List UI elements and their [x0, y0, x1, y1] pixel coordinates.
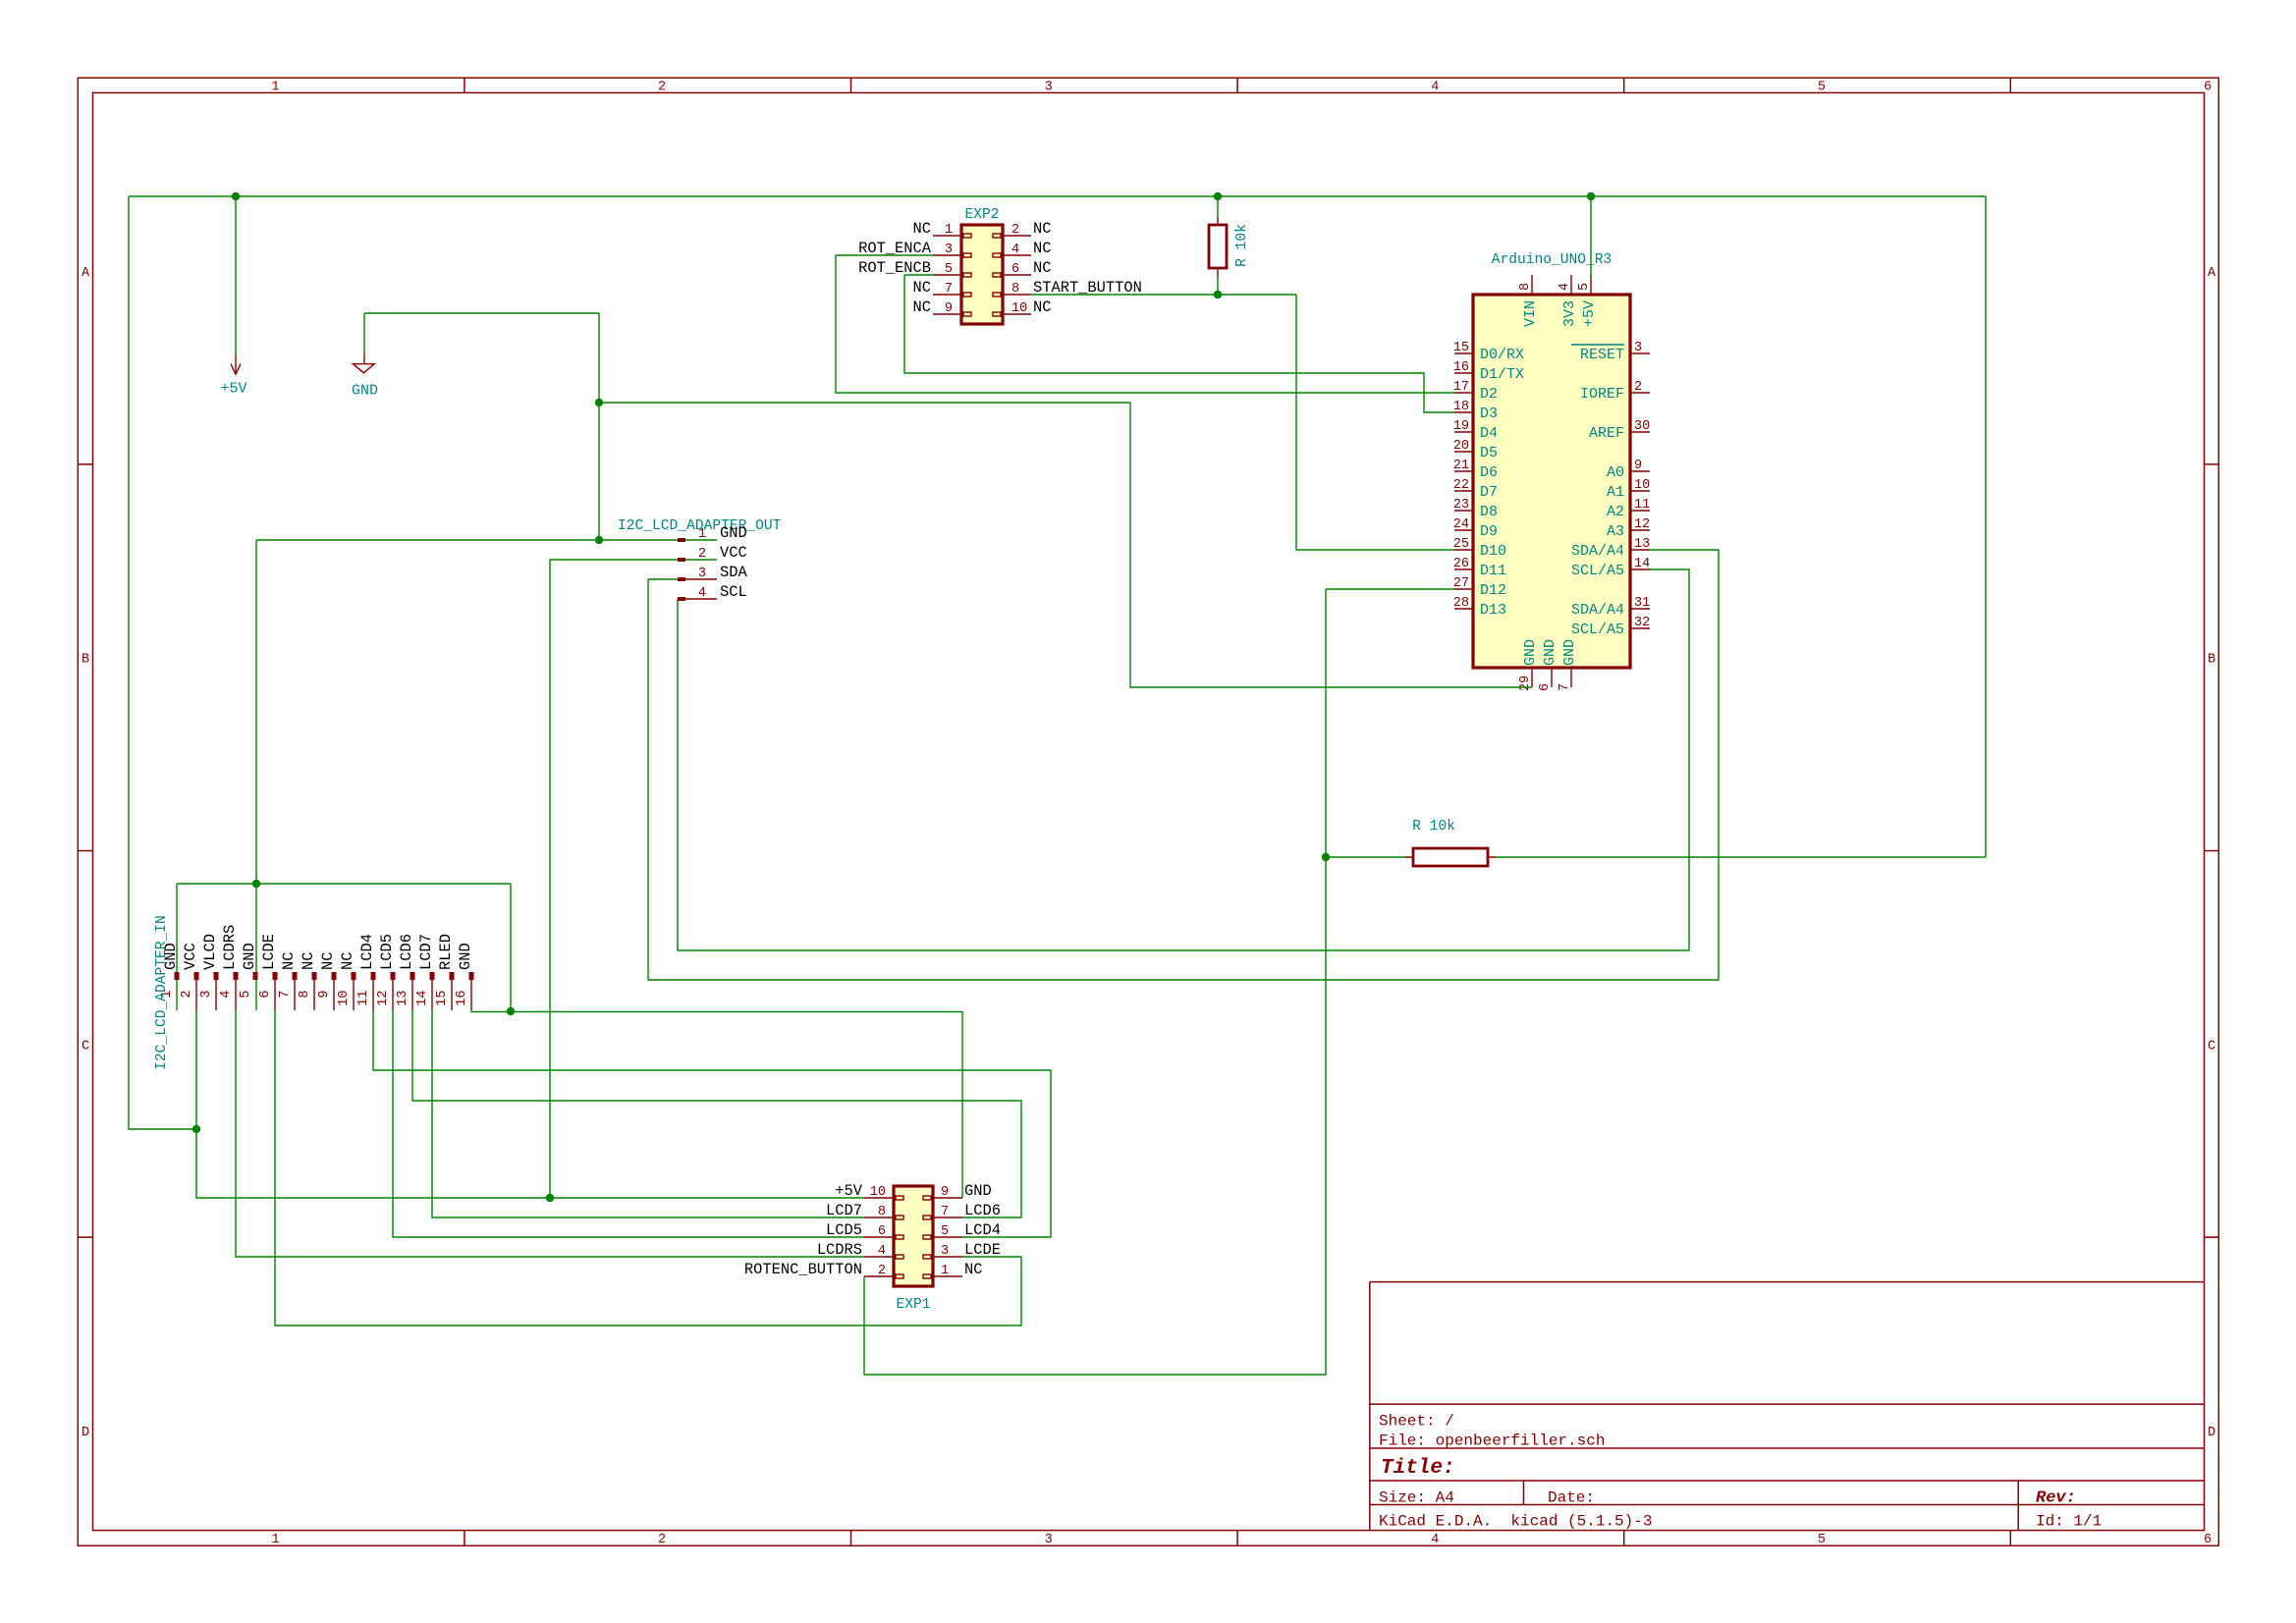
junction +5V	[1214, 192, 1222, 200]
svg-text:4: 4	[1431, 1533, 1439, 1547]
svg-text:2: 2	[658, 81, 666, 95]
svg-text:2: 2	[180, 991, 194, 999]
svg-text:20: 20	[1453, 439, 1469, 454]
svg-text:SCL: SCL	[720, 583, 747, 601]
svg-text:Sheet: /: Sheet: /	[1379, 1413, 1454, 1431]
svg-text:NC: NC	[300, 952, 317, 970]
svg-text:A: A	[82, 266, 90, 281]
pin pads I2C_LCD_ADAPTER_OUT	[678, 538, 685, 601]
svg-text:22: 22	[1453, 478, 1469, 493]
svg-text:D6: D6	[1480, 464, 1498, 481]
svg-text:SDA/A4: SDA/A4	[1571, 602, 1624, 619]
svg-text:A2: A2	[1607, 504, 1624, 520]
svg-text:D: D	[2208, 1426, 2215, 1440]
svg-text:VCC: VCC	[182, 943, 199, 970]
wire ROT_ENCA from EXP2 pin3	[836, 254, 933, 256]
wire +5V to EXP1 pin10	[196, 1010, 864, 1198]
svg-text:4: 4	[1558, 283, 1572, 291]
svg-text:LCDRS: LCDRS	[221, 925, 239, 970]
svg-text:7: 7	[278, 991, 293, 999]
resistor R1 10k (vertical)	[1209, 217, 1227, 277]
svg-text:5: 5	[1818, 81, 1826, 95]
svg-text:D8: D8	[1480, 504, 1498, 520]
svg-text:7: 7	[941, 1205, 949, 1219]
wire R2 left	[1326, 856, 1405, 858]
wire START_BUTTON to Arduino D10	[1296, 295, 1454, 550]
wire VCC to I2C_LCD_ADAPTER_OUT pin2	[550, 559, 717, 561]
svg-text:VLCD: VLCD	[201, 934, 219, 970]
svg-text:1: 1	[271, 1533, 279, 1547]
svg-text:4: 4	[698, 586, 706, 601]
resistor R2 10k (horizontal)	[1405, 848, 1496, 866]
svg-text:D7: D7	[1480, 484, 1498, 501]
svg-text:SCL/A5: SCL/A5	[1571, 563, 1624, 579]
svg-text:16: 16	[1453, 360, 1469, 375]
svg-text:RESET: RESET	[1580, 347, 1624, 363]
wire +5V right riser	[1985, 196, 1987, 857]
svg-text:File: openbeerfiller.sch: File: openbeerfiller.sch	[1379, 1433, 1605, 1450]
svg-text:12: 12	[376, 991, 391, 1006]
wire GND to I2C_LCD_ADAPTER_OUT pin1	[256, 539, 717, 541]
svg-text:5: 5	[941, 1224, 949, 1239]
wire ROTENC_BUTTON from Arduino D12	[1326, 588, 1454, 590]
svg-text:EXP2: EXP2	[964, 207, 999, 223]
svg-text:GND: GND	[1522, 639, 1539, 666]
svg-text:6: 6	[2204, 1533, 2212, 1547]
svg-text:1: 1	[945, 223, 953, 238]
wire GND to I2C_LCD_ADAPTER_IN pin1	[176, 884, 178, 1010]
svg-text:ROT_ENCB: ROT_ENCB	[858, 259, 931, 277]
svg-text:18: 18	[1453, 400, 1469, 414]
svg-text:NC: NC	[913, 279, 931, 297]
svg-text:GND: GND	[352, 383, 378, 400]
junction +5V	[546, 1194, 554, 1202]
svg-text:3: 3	[941, 1244, 949, 1259]
svg-text:+5V: +5V	[220, 381, 246, 398]
Arduino body	[1473, 295, 1630, 668]
svg-text:R 10k: R 10k	[1412, 819, 1455, 835]
wire SCL to Arduino SCL/A5	[678, 569, 1689, 950]
svg-text:12: 12	[1634, 517, 1650, 532]
svg-text:31: 31	[1634, 596, 1650, 611]
svg-text:Rev:: Rev:	[2036, 1489, 2076, 1508]
svg-text:3V3: 3V3	[1561, 300, 1578, 327]
svg-text:19: 19	[1453, 419, 1469, 434]
svg-text:25: 25	[1453, 537, 1469, 552]
wire START_BUTTON from EXP2 pin8	[1031, 294, 1296, 296]
wire LCD5 to EXP1 pin6	[393, 1010, 864, 1237]
svg-text:13: 13	[1634, 537, 1650, 552]
svg-text:LCD6: LCD6	[964, 1202, 1001, 1219]
wire ROT_ENCA to Arduino D2	[836, 255, 1454, 393]
svg-text:NC: NC	[1033, 240, 1051, 257]
svg-text:27: 27	[1453, 576, 1469, 591]
wire +5V VCC riser	[549, 560, 551, 1198]
svg-text:6: 6	[2204, 81, 2212, 95]
svg-text:28: 28	[1453, 596, 1469, 611]
svg-text:SCL/A5: SCL/A5	[1571, 622, 1624, 638]
svg-text:Date:: Date:	[1548, 1489, 1595, 1507]
svg-text:D2: D2	[1480, 386, 1498, 403]
svg-text:GND: GND	[964, 1182, 992, 1200]
wire +5V left riser	[129, 196, 196, 1129]
svg-text:ROTENC_BUTTON: ROTENC_BUTTON	[744, 1261, 862, 1278]
junction +5V	[1587, 192, 1595, 200]
svg-text:LCD4: LCD4	[964, 1221, 1001, 1239]
svg-text:5: 5	[945, 262, 953, 277]
svg-text:LCD4: LCD4	[358, 934, 376, 970]
connector I2C_LCD_ADAPTER_IN	[154, 915, 471, 1070]
svg-text:B: B	[2208, 653, 2215, 668]
connector I2C_LCD_ADAPTER_OUT	[618, 518, 782, 601]
svg-text:D3: D3	[1480, 406, 1498, 422]
svg-text:23: 23	[1453, 498, 1469, 513]
svg-text:2: 2	[1011, 223, 1019, 238]
svg-text:GND: GND	[1542, 639, 1558, 666]
svg-text:GND: GND	[1561, 639, 1578, 666]
wire LCD4 to EXP1 pin5	[373, 1010, 1051, 1237]
wire GND from I2C_LCD_ADAPTER_IN pin16	[471, 1010, 962, 1012]
svg-text:10: 10	[870, 1185, 886, 1200]
svg-text:A1: A1	[1607, 484, 1624, 501]
wire +5V symbol drop	[235, 196, 237, 354]
svg-text:8: 8	[1518, 283, 1533, 291]
svg-text:32: 32	[1634, 616, 1650, 630]
junction +5V	[192, 1125, 200, 1133]
svg-text:+5V: +5V	[1581, 300, 1598, 327]
pin pads I2C_LCD_ADAPTER_IN	[175, 972, 474, 980]
junction GND	[595, 399, 603, 406]
svg-text:14: 14	[1634, 557, 1650, 571]
svg-text:AREF: AREF	[1589, 425, 1624, 442]
EXP2 body	[961, 225, 1003, 324]
svg-text:8: 8	[878, 1205, 886, 1219]
wire LCDRS to EXP1 pin4	[236, 1010, 864, 1257]
svg-text:17: 17	[1453, 380, 1469, 395]
svg-text:9: 9	[317, 991, 332, 999]
wire +5V to Arduino pin5	[1590, 196, 1592, 278]
EXP2 pins	[933, 236, 1031, 314]
connector EXP1	[864, 1185, 962, 1313]
svg-text:NC: NC	[1033, 298, 1051, 316]
svg-text:D10: D10	[1480, 543, 1506, 560]
svg-text:NC: NC	[913, 220, 931, 238]
wire LCD7 to EXP1 pin8	[432, 1010, 864, 1217]
svg-text:D0/RX: D0/RX	[1480, 347, 1524, 363]
svg-text:D5: D5	[1480, 445, 1498, 461]
svg-text:C: C	[2208, 1039, 2215, 1054]
junction GND	[252, 880, 260, 888]
svg-text:29: 29	[1518, 676, 1533, 691]
svg-text:10: 10	[1634, 478, 1650, 493]
svg-text:3: 3	[698, 567, 706, 581]
svg-text:+5V: +5V	[835, 1182, 862, 1200]
svg-text:6: 6	[258, 991, 273, 999]
svg-text:9: 9	[941, 1185, 949, 1200]
svg-text:4: 4	[219, 991, 234, 999]
svg-text:START_BUTTON: START_BUTTON	[1033, 279, 1142, 297]
svg-text:EXP1: EXP1	[896, 1297, 930, 1313]
svg-text:IOREF: IOREF	[1580, 386, 1624, 403]
svg-text:D12: D12	[1480, 582, 1506, 599]
svg-text:VIN: VIN	[1522, 300, 1539, 327]
svg-text:NC: NC	[964, 1261, 982, 1278]
wire ROTENC_BUTTON to EXP1 pin2	[864, 589, 1326, 1375]
svg-text:7: 7	[1558, 683, 1572, 691]
svg-text:Title:: Title:	[1381, 1457, 1455, 1480]
svg-text:10: 10	[1011, 301, 1027, 316]
svg-text:LCD6: LCD6	[398, 934, 415, 970]
junction GND	[595, 536, 603, 544]
svg-text:15: 15	[1453, 341, 1469, 355]
svg-text:3: 3	[1045, 81, 1053, 95]
svg-text:15: 15	[435, 991, 450, 1006]
svg-text:D11: D11	[1480, 563, 1506, 579]
svg-text:4: 4	[1431, 81, 1439, 95]
svg-text:C: C	[82, 1039, 89, 1054]
wire GND riser	[364, 313, 599, 540]
svg-text:21: 21	[1453, 459, 1469, 473]
svg-text:6: 6	[878, 1224, 886, 1239]
svg-text:9: 9	[945, 301, 953, 316]
title block	[1370, 1282, 2205, 1531]
svg-text:6: 6	[1538, 683, 1553, 691]
svg-text:3: 3	[1634, 341, 1642, 355]
svg-text:Size: A4: Size: A4	[1379, 1489, 1454, 1507]
junction ROTENC_BUTTON	[1322, 853, 1330, 861]
svg-text:4: 4	[1011, 243, 1019, 257]
svg-text:13: 13	[396, 991, 410, 1006]
svg-text:2: 2	[1634, 380, 1642, 395]
svg-text:1: 1	[941, 1264, 949, 1278]
junction GND	[507, 1007, 515, 1015]
junction START_BUTTON	[1214, 291, 1222, 298]
wire +5V rail	[129, 195, 1986, 197]
wire SDA from I2C_LCD_ADAPTER_OUT pin3	[648, 578, 678, 580]
svg-text:2: 2	[878, 1264, 886, 1278]
svg-text:A: A	[2208, 266, 2216, 281]
svg-text:D13: D13	[1480, 602, 1506, 619]
wire R1 bottom	[1217, 277, 1219, 295]
svg-text:30: 30	[1634, 419, 1650, 434]
wire ROT_ENCB from EXP2 pin5	[904, 274, 933, 276]
svg-text:D1/TX: D1/TX	[1480, 366, 1524, 383]
svg-text:Id: 1/1: Id: 1/1	[2036, 1513, 2102, 1531]
wire SDA to Arduino SDA/A4	[648, 550, 1719, 980]
svg-text:3: 3	[199, 991, 214, 999]
svg-text:NC: NC	[913, 298, 931, 316]
power symbol GND	[352, 354, 378, 400]
svg-text:R 10k: R 10k	[1234, 224, 1250, 267]
svg-text:26: 26	[1453, 557, 1469, 571]
svg-text:LCD5: LCD5	[826, 1221, 862, 1239]
svg-text:2: 2	[658, 1533, 666, 1547]
svg-text:16: 16	[455, 991, 469, 1006]
svg-text:GND: GND	[241, 943, 258, 970]
svg-text:ROT_ENCA: ROT_ENCA	[858, 240, 932, 257]
wire LCDE to EXP1 pin3	[275, 1010, 1021, 1325]
svg-text:KiCad E.D.A. kicad (5.1.5)-3: KiCad E.D.A. kicad (5.1.5)-3	[1379, 1513, 1652, 1531]
wire +5V to R1	[1217, 196, 1219, 217]
svg-text:NC: NC	[1033, 259, 1051, 277]
svg-text:I2C_LCD_ADAPTER_IN: I2C_LCD_ADAPTER_IN	[154, 915, 170, 1070]
svg-text:LCDE: LCDE	[964, 1241, 1001, 1259]
svg-text:SDA/A4: SDA/A4	[1571, 543, 1624, 560]
svg-text:8: 8	[1011, 282, 1019, 297]
wire GND to EXP1 pin9	[961, 1012, 963, 1199]
svg-text:5: 5	[1818, 1533, 1826, 1547]
svg-text:A0: A0	[1607, 464, 1624, 481]
svg-text:LCD7: LCD7	[826, 1202, 862, 1219]
connector EXP2	[933, 207, 1031, 324]
svg-text:4: 4	[878, 1244, 886, 1259]
svg-text:D9: D9	[1480, 523, 1498, 540]
svg-text:1: 1	[271, 81, 279, 95]
svg-text:7: 7	[945, 282, 953, 297]
svg-text:11: 11	[356, 991, 371, 1006]
power symbol +5V	[220, 354, 246, 398]
svg-text:NC: NC	[319, 952, 337, 970]
wire GND to Arduino pin29	[599, 403, 1532, 687]
wire R2 right to +5V	[1496, 856, 1986, 858]
svg-text:11: 11	[1634, 498, 1650, 513]
svg-text:D4: D4	[1480, 425, 1498, 442]
svg-text:GND: GND	[720, 524, 747, 542]
svg-text:LCDE: LCDE	[260, 934, 278, 970]
svg-text:5: 5	[1577, 283, 1592, 291]
svg-text:RLED: RLED	[437, 934, 455, 970]
svg-text:GND: GND	[162, 943, 180, 970]
svg-text:B: B	[82, 653, 89, 668]
wire GND horizontal	[177, 883, 511, 885]
svg-text:14: 14	[415, 991, 430, 1006]
svg-text:LCD5: LCD5	[378, 934, 396, 970]
wire GND to I2C_LCD_ADAPTER_IN pin5	[255, 540, 257, 1010]
svg-text:NC: NC	[339, 952, 356, 970]
svg-text:3: 3	[1045, 1533, 1053, 1547]
svg-text:8: 8	[298, 991, 312, 999]
wire LCD6 to EXP1 pin7	[412, 1010, 1021, 1217]
svg-text:3: 3	[945, 243, 953, 257]
EXP1 pins	[864, 1198, 962, 1276]
svg-text:D: D	[82, 1426, 89, 1440]
svg-text:5: 5	[239, 991, 253, 999]
svg-text:24: 24	[1453, 517, 1469, 532]
EXP1 body	[894, 1186, 933, 1286]
svg-text:9: 9	[1634, 459, 1642, 473]
svg-text:LCDRS: LCDRS	[817, 1241, 862, 1259]
svg-text:VCC: VCC	[720, 544, 747, 562]
svg-text:NC: NC	[280, 952, 298, 970]
svg-text:Arduino_UNO_R3: Arduino_UNO_R3	[1492, 252, 1613, 268]
svg-text:GND: GND	[457, 943, 474, 970]
svg-text:I2C_LCD_ADAPTER_OUT: I2C_LCD_ADAPTER_OUT	[618, 518, 782, 534]
svg-text:6: 6	[1011, 262, 1019, 277]
wire GND symbol stem	[363, 313, 365, 354]
svg-text:10: 10	[337, 991, 352, 1006]
svg-text:NC: NC	[1033, 220, 1051, 238]
svg-text:SDA: SDA	[720, 564, 747, 581]
svg-text:A3: A3	[1607, 523, 1624, 540]
svg-text:LCD7: LCD7	[417, 934, 435, 970]
wire GND drop	[510, 884, 512, 1011]
Arduino_UNO_R3 module A1	[1453, 252, 1650, 691]
wire ROT_ENCB to Arduino D3	[904, 275, 1454, 412]
junction +5V	[232, 192, 240, 200]
